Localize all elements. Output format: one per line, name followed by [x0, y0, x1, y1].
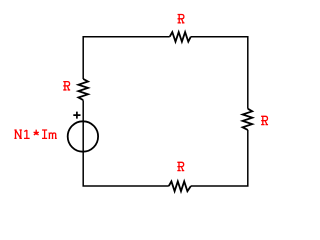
resistor R (top) value label R — [178, 15, 185, 23]
voltage source N1*Im circle — [68, 121, 98, 151]
resistor R (right) — [243, 109, 253, 130]
voltage source label N1*Im — [14, 130, 56, 139]
wire top-left corner — [83, 37, 170, 79]
resistor R (bottom) value label R — [177, 162, 184, 170]
resistor R (top) — [170, 32, 191, 42]
wire top-right corner — [191, 37, 248, 109]
resistor R (left) value label R — [63, 82, 70, 90]
resistor R (bottom) — [169, 181, 191, 191]
resistor R (left) — [78, 79, 88, 100]
wire bottom-left corner through voltage source — [83, 100, 169, 186]
wire bottom-right corner — [191, 130, 248, 186]
voltage source plus sign — [73, 112, 80, 119]
resistor R (right) value label R — [261, 116, 268, 124]
